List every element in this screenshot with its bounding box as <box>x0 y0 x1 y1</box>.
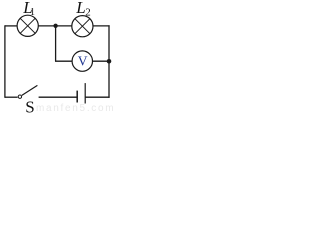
lamp L1 <box>17 15 38 36</box>
wire: vertical drop from top node to voltmeter branch <box>55 26 57 61</box>
svg-text:L: L <box>75 0 85 17</box>
battery positive long plate <box>84 83 86 103</box>
svg-text:manfen5.com: manfen5.com <box>36 103 113 114</box>
svg-text:2: 2 <box>85 7 91 19</box>
svg-text:1: 1 <box>30 7 35 18</box>
wire: right vertical side <box>108 25 110 98</box>
node junction dot on top wire <box>53 24 57 28</box>
switch S blade <box>22 85 38 95</box>
wire: bottom-left horizontal to switch <box>5 96 18 98</box>
svg-text:V: V <box>78 53 88 68</box>
voltmeter V1 <box>72 51 92 71</box>
battery negative short plate <box>76 91 78 103</box>
wire: left vertical side <box>4 25 6 98</box>
node junction dot on right side <box>107 59 112 64</box>
wire: bottom right from battery to right corner <box>85 96 109 98</box>
svg-text:S: S <box>25 98 34 117</box>
wire: top-right horizontal from L2 to right corner <box>93 25 110 27</box>
wire: top middle between L1 and L2 <box>38 25 72 27</box>
wire: voltmeter branch right <box>93 60 110 62</box>
switch S pivot <box>18 95 21 98</box>
wire: bottom middle from switch to battery <box>39 96 77 98</box>
wire: voltmeter branch left <box>55 60 72 62</box>
wire: top-left horizontal from left corner to lamp L1 <box>5 25 17 27</box>
lamp L2 <box>72 16 93 37</box>
background <box>0 0 113 116</box>
